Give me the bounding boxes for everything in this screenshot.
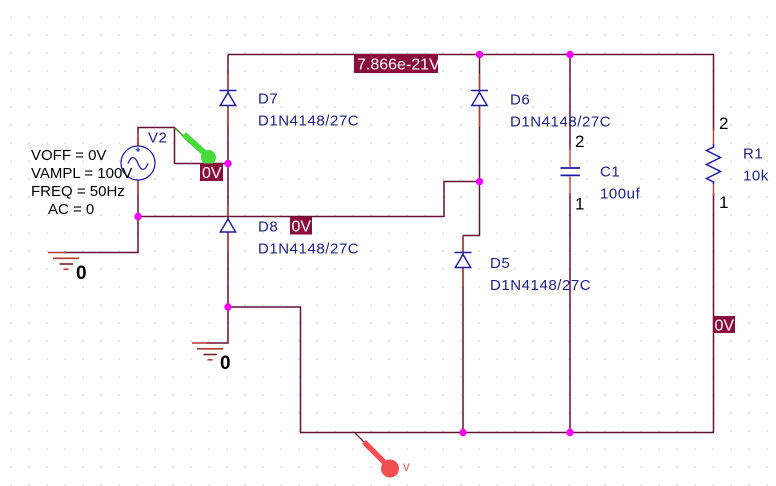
svg-text:VOFF = 0V: VOFF = 0V <box>31 147 106 164</box>
svg-text:2: 2 <box>575 132 584 151</box>
svg-text:0V: 0V <box>292 219 312 236</box>
svg-text:10k: 10k <box>743 168 769 185</box>
svg-text:0V: 0V <box>715 318 735 335</box>
svg-text:1: 1 <box>575 195 584 214</box>
svg-text:0: 0 <box>76 263 87 284</box>
svg-text:C1: C1 <box>600 164 620 181</box>
svg-text:0: 0 <box>220 353 231 374</box>
svg-text:v: v <box>403 459 410 474</box>
svg-text:V2: V2 <box>148 130 167 147</box>
svg-text:2: 2 <box>719 114 728 133</box>
svg-text:D5: D5 <box>490 255 510 272</box>
svg-text:0V: 0V <box>202 165 222 182</box>
svg-text:VAMPL = 100V: VAMPL = 100V <box>31 165 132 182</box>
svg-text:D8: D8 <box>258 219 278 236</box>
svg-text:D1N4148/27C: D1N4148/27C <box>510 114 611 131</box>
svg-text:D1N4148/27C: D1N4148/27C <box>258 113 359 130</box>
svg-text:7.866e-21V: 7.866e-21V <box>357 57 440 74</box>
svg-text:D1N4148/27C: D1N4148/27C <box>258 241 359 258</box>
svg-text:AC = 0: AC = 0 <box>48 201 94 218</box>
svg-text:100uf: 100uf <box>600 186 641 203</box>
svg-text:FREQ = 50Hz: FREQ = 50Hz <box>31 183 125 200</box>
svg-text:D1N4148/27C: D1N4148/27C <box>490 277 591 294</box>
svg-text:1: 1 <box>719 193 728 212</box>
svg-text:R1: R1 <box>743 146 763 163</box>
svg-text:D7: D7 <box>258 91 278 108</box>
svg-text:D6: D6 <box>510 92 530 109</box>
